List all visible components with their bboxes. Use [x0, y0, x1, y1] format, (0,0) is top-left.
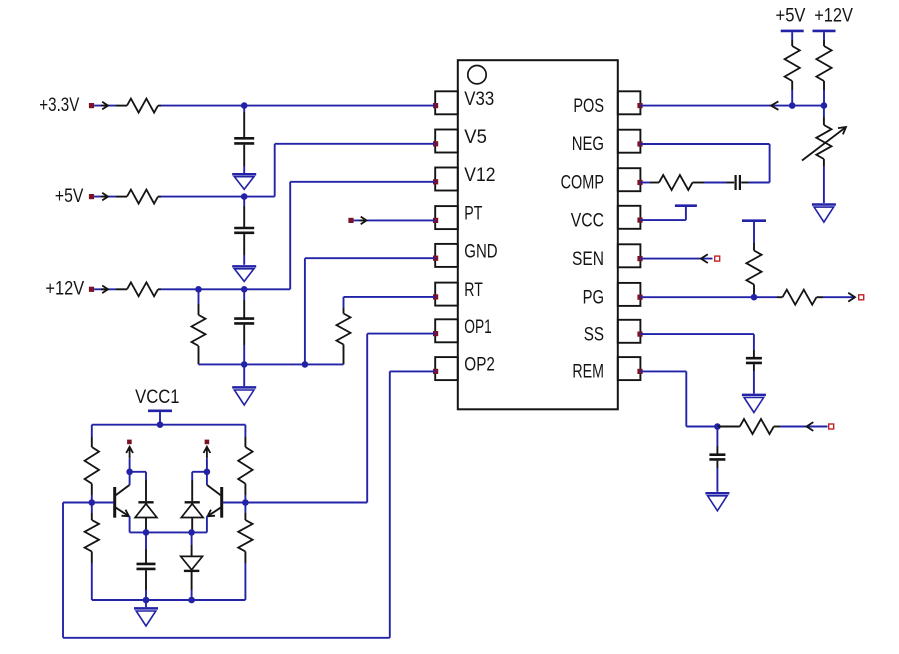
wire R14 to PG port [823, 296, 855, 298]
diode D3 (cathode down) [191, 532, 193, 545]
node junction Q2 collector/D2 [204, 469, 211, 476]
U1 pin OP2 connection dot [433, 369, 438, 374]
wire Q1 emitter to mid rail [129, 516, 131, 532]
wire OP2 pin around bottom to VCC1 cell [390, 370, 435, 372]
arrow on REM wire [807, 422, 814, 431]
node junction POS/+5V resistor [789, 102, 796, 109]
node junction bottom rail/C4 [143, 597, 150, 604]
U1 right pin NEG box [618, 130, 641, 153]
U1 right pin POS box [618, 91, 641, 114]
port +3.3V wire stub [94, 105, 116, 107]
node junction mid rail/C4 [143, 529, 150, 536]
transistor Q2 base bar [220, 487, 223, 518]
svg-text:V33: V33 [464, 89, 494, 110]
U1 pin V33 connection dot [433, 103, 438, 108]
resistor R1 (+3.3V series) [116, 105, 127, 107]
U1 pin-1 indicator circle [468, 66, 486, 84]
wire elbow up to V5 pin [274, 144, 276, 197]
port SEN open square [715, 256, 720, 261]
port +12V wire stub [94, 288, 116, 290]
resistor R11 (+12V to POS) [823, 40, 825, 46]
wire OP1 pin down to VCC1 cell [367, 333, 435, 335]
node junction POS/+12V resistor [821, 102, 828, 109]
ground symbol GND4 (VCC1 cell) [145, 600, 147, 607]
node junction VCC1/top rail [157, 421, 164, 428]
U1 right pin PG box [618, 283, 641, 306]
wire ground rail y364 [199, 363, 344, 365]
node junction rail/C3 [241, 361, 248, 368]
port +5V wire stub [94, 196, 116, 198]
resistor R8 (right upper) [244, 425, 246, 437]
U1 right pin COMP box [618, 168, 641, 191]
node junction PG/R13 [751, 294, 758, 301]
U1 right pin SS box [618, 320, 641, 343]
svg-text:+5V: +5V [776, 5, 806, 26]
arrow on POS wire [771, 101, 778, 109]
arrow on PG wire [848, 293, 855, 302]
port +12V square [89, 287, 94, 292]
svg-text:OP1: OP1 [464, 317, 492, 338]
node junction +12V/R4 [195, 286, 202, 293]
wire +12V rail to elbow [161, 288, 290, 290]
svg-text:NEG: NEG [572, 134, 604, 155]
capacitor C1 (+3.3V decoupling) [243, 106, 245, 112]
wire Q1 collector [129, 458, 131, 485]
node junction bottom rail/D3 [188, 597, 195, 604]
port Q2 collector arrow up [204, 447, 211, 459]
wire VR1 to ground [823, 166, 825, 203]
U1 pin GND connection dot [433, 256, 438, 261]
resistor R14 (PG series) [777, 296, 783, 298]
port +5V square [89, 194, 94, 199]
wire GND pin to rail [305, 257, 435, 259]
port Q1 collector arrow up [126, 447, 133, 459]
U1 pin VCC connection dot [637, 218, 642, 223]
resistor R6 (left upper) [91, 425, 93, 437]
svg-text:SS: SS [584, 324, 604, 345]
power symbol T-bar above R13 [742, 219, 766, 222]
wire Q2 base [223, 502, 246, 504]
wire PT port to PT pin [354, 219, 436, 221]
node junction REM node [714, 423, 721, 430]
svg-text:RT: RT [464, 280, 483, 301]
svg-text:V5: V5 [464, 127, 487, 148]
power symbol +5V T-bar [781, 30, 804, 33]
wire Q1 base [92, 502, 114, 504]
U1 pin V5 connection dot [433, 141, 438, 146]
resistor R12 (COMP) [650, 182, 659, 184]
resistor R2 (+5V series) [116, 196, 127, 198]
U1 right pin SEN box [618, 244, 641, 267]
node junction right branch/base wire/OP1 [242, 499, 249, 506]
svg-text:SEN: SEN [572, 249, 604, 270]
svg-text:VCC: VCC [571, 210, 604, 231]
wire RT pin to resistor R5 [344, 296, 436, 298]
wire COMP pin segment [640, 182, 650, 184]
wire R15 to REM port [780, 426, 828, 428]
ground symbol GND2 (C2) [232, 265, 256, 268]
wire SS pin to C6 [640, 333, 754, 335]
capacitor C4 [145, 532, 147, 549]
node junction rail/GND-pin wire [302, 361, 309, 368]
svg-text:+12V: +12V [814, 5, 853, 26]
U1 pin NEG connection dot [637, 141, 642, 146]
svg-text:REM: REM [572, 362, 604, 383]
wire Q2 collector [206, 458, 208, 485]
ground symbol GND7 (REM) [705, 492, 729, 495]
U1 pin POS connection dot [637, 103, 642, 108]
U1 pin SEN connection dot [637, 256, 642, 261]
wire R12 to C5 [704, 182, 727, 184]
wire collector node to D1 [130, 471, 146, 473]
U1 pin SS connection dot [637, 332, 642, 337]
svg-text:POS: POS [573, 96, 604, 117]
capacitor C7 (REM node) [716, 427, 718, 447]
U1 pin RT connection dot [433, 294, 438, 299]
svg-text:PT: PT [464, 204, 482, 225]
svg-text:+3.3V: +3.3V [39, 95, 79, 116]
variable resistor VR1 [823, 106, 825, 117]
svg-text:V12: V12 [464, 165, 495, 186]
svg-text:GND: GND [464, 241, 497, 262]
U1 left pin V5 box [435, 130, 458, 153]
svg-text:+5V: +5V [55, 186, 84, 207]
U1 pin COMP connection dot [637, 180, 642, 185]
node junction mid rail/D3 [188, 529, 195, 536]
U1 right pin VCC box [618, 206, 641, 229]
transistor Q1 collector stroke [116, 485, 130, 495]
node junction Q1 collector/D1 [126, 469, 133, 476]
svg-text:COMP: COMP [561, 173, 604, 194]
U1 pin PT connection dot [433, 218, 438, 223]
resistor R9 (right lower) [244, 503, 246, 514]
ground symbol GND5 (VR1) [812, 203, 836, 206]
port REM open square [829, 424, 834, 429]
capacitor C5 (COMP series) [727, 182, 735, 184]
resistor R7 (left lower) [91, 503, 93, 514]
wire VCC1 bottom rail [92, 599, 246, 601]
wire collector node to D2 [192, 471, 207, 473]
wire VCC1 top rail [92, 424, 246, 426]
node junction +12V/C3 [241, 286, 248, 293]
node junction +3.3V/C1 [241, 102, 248, 109]
svg-text:OP2: OP2 [464, 355, 495, 376]
U1 pin PG connection dot [637, 295, 642, 300]
wire SEN pin stub [640, 258, 712, 260]
power symbol T-bar at VCC [675, 204, 697, 207]
capacitor C6 (SS) [753, 350, 755, 357]
U1 left pin RT box [435, 283, 458, 306]
node junction left branch/base wire [89, 499, 96, 506]
variable resistor VR1 arrow [838, 127, 846, 134]
wire POS pin to +5V/+12V dividers [640, 105, 824, 107]
resistor R10 (+5V to POS) [791, 40, 793, 46]
wire REM pin down [640, 370, 686, 372]
U1 left pin GND box [435, 244, 458, 267]
port +12V arrow [101, 286, 108, 294]
capacitor C3 (+12V decoupling) [243, 289, 245, 300]
port PT label-less input square [348, 218, 353, 223]
U1 right pin REM box [618, 357, 641, 380]
wire +5V rail to elbow [161, 196, 275, 198]
wire mid rail [130, 531, 207, 533]
diode D2 (cathode up) [185, 501, 200, 503]
ground symbol GND6 (SS) [742, 394, 766, 397]
port +3.3V arrow [101, 102, 108, 110]
op-amp U1 controller IC body [458, 60, 618, 409]
capacitor C2 (+5V decoupling) [243, 197, 245, 206]
port Q2 collector square [205, 440, 210, 445]
U1 left pin OP1 box [435, 319, 458, 342]
port PT arrow [360, 217, 367, 225]
svg-text:+12V: +12V [45, 279, 84, 300]
wire NEG pin loop [640, 143, 769, 145]
wire elbow up to V12 pin [289, 182, 291, 289]
U1 left pin OP2 box [435, 357, 458, 380]
port +3.3V square [89, 103, 94, 108]
wire +3.3V to V33 pin [161, 105, 435, 107]
arrow on SEN wire [701, 254, 708, 263]
port PG open square [859, 295, 864, 300]
resistor R5 (RT) [343, 308, 345, 314]
U1 pin REM connection dot [637, 369, 642, 374]
port +5V arrow [101, 193, 108, 201]
resistor R15 (REM series) [717, 426, 739, 428]
U1 left pin V12 box [435, 168, 458, 191]
svg-text:PG: PG [583, 287, 604, 308]
ground symbol GND1 (C1) [232, 173, 256, 176]
resistor R13 (SEN pull) [753, 222, 755, 243]
transistor Q2 emitter stroke with arrow [208, 508, 221, 517]
resistor R3 (+12V series) [116, 288, 127, 290]
U1 left pin PT box [435, 206, 458, 229]
power symbol +12V T-bar [813, 30, 836, 33]
wire Q2 emitter to mid rail [206, 516, 208, 532]
U1 pin OP1 connection dot [433, 331, 438, 336]
transistor Q2 collector stroke [207, 485, 221, 495]
resistor R4 (+12V pulldown) [198, 289, 200, 304]
transistor Q1 base bar [113, 487, 116, 518]
power symbol VCC1 T-bar [148, 409, 172, 412]
svg-text:VCC1: VCC1 [135, 387, 179, 408]
port Q1 collector square [127, 440, 132, 445]
diode D1 (cathode up) [138, 501, 153, 503]
wire PG pin line [640, 296, 777, 298]
node junction +5V/C2 [241, 193, 248, 200]
wire C5 to NEG loop corner [749, 182, 770, 184]
transistor Q1 emitter stroke with arrow [116, 508, 129, 517]
ground symbol GND3 (main rail) [243, 364, 245, 386]
wire VCC pin to power tap [640, 219, 686, 221]
U1 pin V12 connection dot [433, 179, 438, 184]
U1 left pin V33 box [435, 91, 458, 114]
